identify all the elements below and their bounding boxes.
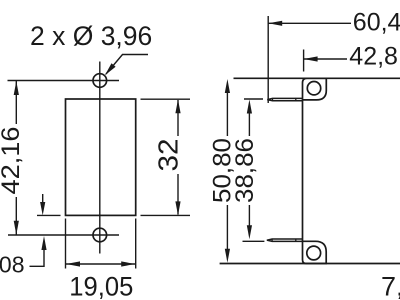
arrowhead up 5,08 lower (41, 236, 46, 250)
arrowhead left 19,05 (66, 261, 80, 266)
svg-text:2 x Ø 3,96: 2 x Ø 3,96 (30, 21, 152, 51)
leader line for hole label (106, 55, 148, 75)
arrowhead down 32 bottom (175, 201, 180, 215)
arrowhead right 19,05 (121, 261, 135, 266)
top hole crosshair horizontal line (8, 80, 120, 82)
dimension line 42,16 (15, 81, 17, 124)
arrowhead left 60,45 (268, 21, 282, 26)
svg-text:7,62: 7,62 (381, 272, 400, 300)
arrowhead down 50,80 bottom (225, 249, 230, 263)
dimension line 60,45 (268, 22, 351, 24)
svg-text:60,45: 60,45 (353, 9, 400, 37)
dimension line 38,86 shafts (248, 113, 250, 136)
svg-text:19,05: 19,05 (69, 271, 133, 300)
extension line for 60,45 from upper pin tip (267, 16, 269, 103)
extension line at upper pin for 38,86 (244, 98, 263, 100)
arrowhead up 50,80 top (225, 79, 230, 93)
svg-text:42,16: 42,16 (0, 127, 25, 195)
extension line for 42,8 (303, 50, 305, 72)
extension line rect bottom left for 5,08 (37, 214, 61, 216)
arrowhead up 32 top (175, 99, 180, 113)
arrowhead down 5,08 upper (40, 202, 45, 215)
dimension line 50,80 shafts (226, 92, 228, 136)
arrowhead for hole leader (105, 63, 116, 75)
arrowhead up 42,16 top (14, 81, 19, 95)
left view body rectangle (66, 99, 136, 215)
right view: bottom edge of body with left extension for 50,80 (220, 263, 400, 265)
svg-text:38,86: 38,86 (231, 138, 259, 203)
top mounting tab (303, 78, 327, 100)
right view: body left edge (302, 100, 304, 241)
bottom mounting hole (93, 228, 107, 242)
arrowhead down 42,16 bottom (14, 221, 19, 235)
svg-text:42,8: 42,8 (349, 42, 398, 70)
bottom hole crosshair horizontal line (8, 234, 119, 236)
bottom mounting tab (303, 241, 327, 263)
dimension line 19,05 (66, 263, 135, 265)
dimension line 42,8 (304, 58, 347, 60)
extension line at lower pin for 38,86 (243, 240, 265, 242)
upper terminal pin (267, 98, 302, 100)
svg-text:5,08: 5,08 (0, 252, 25, 278)
lower terminal pin (267, 239, 303, 241)
vertical centerline through holes (99, 62, 101, 254)
arrow shaft above for 5,08 (42, 194, 44, 203)
right view: top edge of body with left extension for 50,80 (234, 77, 400, 79)
svg-text:32: 32 (153, 139, 184, 172)
leader for 5,08 (30, 249, 45, 266)
extension lines for 19,05 (65, 219, 67, 269)
top mounting hole (93, 74, 107, 88)
extension lines for 32 (141, 98, 191, 100)
arrowhead up 38,86 top (247, 100, 252, 114)
bottom tab hole (307, 246, 321, 260)
top tab hole (307, 82, 320, 95)
arrowhead down 38,86 bottom (247, 225, 252, 239)
dimension line 32 (177, 100, 179, 136)
arrowhead left 42,8 (304, 56, 318, 61)
